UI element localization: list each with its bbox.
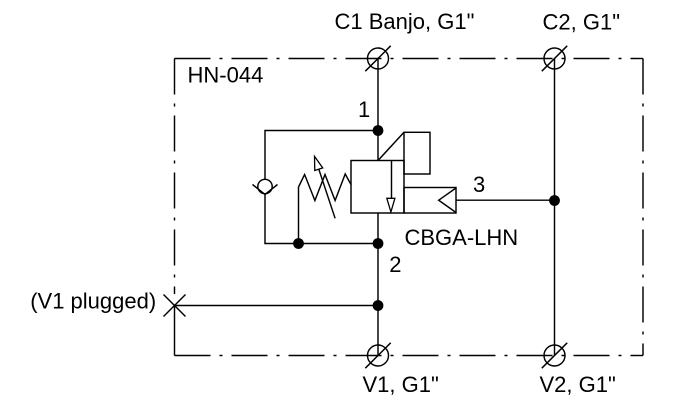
svg-text:V1, G1": V1, G1" [363, 372, 439, 397]
svg-text:1: 1 [358, 97, 370, 122]
svg-text:HN-044: HN-044 [188, 62, 264, 87]
svg-text:3: 3 [473, 172, 485, 197]
svg-text:V2, G1": V2, G1" [540, 372, 616, 397]
svg-text:(V1 plugged): (V1 plugged) [30, 289, 156, 314]
svg-text:CBGA-LHN: CBGA-LHN [405, 225, 519, 250]
svg-text:C1 Banjo, G1": C1 Banjo, G1" [335, 9, 475, 34]
svg-text:C2, G1": C2, G1" [543, 10, 621, 35]
svg-text:2: 2 [389, 252, 401, 277]
